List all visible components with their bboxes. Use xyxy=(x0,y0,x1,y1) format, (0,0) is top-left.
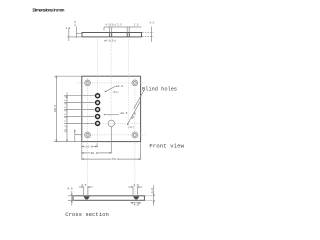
left thickness ticks xyxy=(68,195,75,197)
plate outline xyxy=(82,76,141,141)
svg-text:4.5: 4.5 xyxy=(149,22,154,25)
svg-text:4.5: 4.5 xyxy=(74,21,77,27)
left inner dim line xyxy=(66,93,68,142)
svg-text:4.5: 4.5 xyxy=(133,184,139,187)
hole mark 1 in bar xyxy=(109,27,111,33)
top dim arrows xyxy=(108,26,131,28)
svg-text:4.5: 4.5 xyxy=(66,27,71,30)
bottom dim 1 xyxy=(82,146,97,148)
svg-text:7.5: 7.5 xyxy=(64,109,67,115)
svg-text:18.5: 18.5 xyxy=(64,125,67,132)
svg-text:Blind holes: Blind holes xyxy=(142,87,177,93)
right thickness extension lines xyxy=(145,195,156,197)
counterbore hole top-right xyxy=(132,80,138,86)
left top-edge tick xyxy=(77,32,83,34)
right thickness dim xyxy=(153,186,155,206)
svg-text:(5x): (5x) xyxy=(113,90,120,94)
svg-text:4.0: 4.0 xyxy=(134,204,140,207)
blind hole 2 xyxy=(96,101,100,105)
left thickness dim line xyxy=(68,28,70,41)
blind hole 5 xyxy=(96,121,100,125)
center line row bottom holes xyxy=(78,134,146,136)
big hole stem to dim xyxy=(110,127,112,153)
center line row top holes xyxy=(78,82,146,84)
right thickness extension lines xyxy=(142,32,154,34)
svg-text:30.0: 30.0 xyxy=(91,152,98,155)
right thickness dim line xyxy=(151,27,153,43)
svg-text:54.0: 54.0 xyxy=(112,158,119,161)
right stud lines xyxy=(132,187,134,196)
blind hole 1 xyxy=(96,94,100,98)
right plug bottom dim xyxy=(131,202,141,204)
bottom dim 2 xyxy=(82,152,112,154)
slanted counterbore leader xyxy=(127,102,140,125)
left plug dim xyxy=(79,186,84,188)
left outer dim extension top xyxy=(54,75,82,77)
blind hole 4 xyxy=(96,115,100,119)
svg-text:Dimensions in mm: Dimensions in mm xyxy=(33,8,65,13)
left stud lines xyxy=(82,187,84,196)
big center hole xyxy=(108,120,114,126)
top dim line xyxy=(104,26,142,28)
svg-text:ø4.0(5x): ø4.0(5x) xyxy=(104,38,117,42)
counterbore hole top-left xyxy=(85,80,91,86)
svg-text:Front view: Front view xyxy=(149,142,184,149)
leader for blind holes dia xyxy=(105,86,115,92)
center line row big circle xyxy=(103,122,141,124)
svg-text:4.5: 4.5 xyxy=(81,184,87,187)
center line column second top hole xyxy=(127,37,129,126)
center line column right holes xyxy=(134,78,136,196)
hole mark 2 in bar xyxy=(126,27,128,33)
left thickness dim xyxy=(71,191,73,206)
center line column left holes xyxy=(87,78,89,196)
counterbore hole bottom-left xyxy=(85,132,91,138)
center line column mid hole xyxy=(110,37,112,120)
blind holes leader xyxy=(134,91,144,109)
svg-text:4.5: 4.5 xyxy=(151,188,154,194)
center line column blind holes xyxy=(96,37,98,144)
svg-text:4.5(5x): 4.5(5x) xyxy=(105,23,116,27)
svg-text:4.5: 4.5 xyxy=(67,188,73,191)
svg-text:7.5: 7.5 xyxy=(64,96,67,102)
blind hole row extension lines xyxy=(64,95,95,97)
svg-text:68.5: 68.5 xyxy=(54,105,57,112)
svg-text:(2x): (2x) xyxy=(128,125,135,129)
svg-text:7.5: 7.5 xyxy=(64,116,67,122)
left outer dim line xyxy=(55,76,57,141)
svg-text:14.0: 14.0 xyxy=(85,146,92,149)
left outer dim extension bottom xyxy=(54,141,82,143)
svg-text:2.5: 2.5 xyxy=(134,24,139,27)
svg-text:7.5: 7.5 xyxy=(64,102,67,108)
plate bar (edge view) xyxy=(82,33,142,37)
bottom-left hole height arrow xyxy=(74,130,76,142)
counterbore hole bottom-right xyxy=(132,132,138,138)
svg-text:2.5: 2.5 xyxy=(117,24,122,27)
right plug dim xyxy=(128,186,133,188)
svg-text:Cross section: Cross section xyxy=(65,211,109,218)
blind hole 3 xyxy=(96,108,100,112)
svg-text:ø0.5: ø0.5 xyxy=(120,112,127,115)
section bar xyxy=(73,196,144,201)
bottom dim 3 xyxy=(82,158,141,160)
bottom dim extension lines xyxy=(81,142,83,159)
second left dim line xyxy=(76,27,78,39)
dia 0.5 leader xyxy=(104,114,119,116)
right countersink fill xyxy=(133,196,139,199)
svg-text:ø2.5: ø2.5 xyxy=(116,85,123,88)
left bottom-edge extension line xyxy=(67,36,82,38)
left countersink fill xyxy=(84,196,90,199)
